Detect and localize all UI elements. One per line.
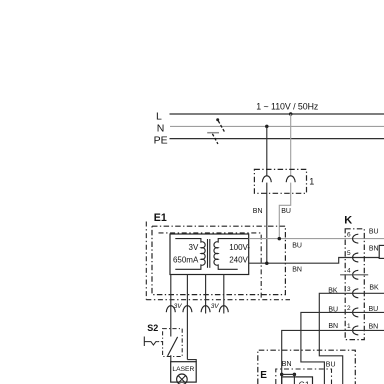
wire from N down to connector 1 bbox=[266, 126, 268, 176]
disconnect mark on line N (dot with dashed stroke) bbox=[216, 118, 224, 132]
svg-text:BU: BU bbox=[292, 243, 302, 250]
laser module box bbox=[171, 362, 197, 382]
connector K box bbox=[345, 229, 364, 340]
junction BU on 100V wire bbox=[278, 237, 282, 241]
transformer T1 body bbox=[170, 234, 249, 275]
K pin 6 contact bbox=[353, 234, 359, 243]
svg-text:100V-: 100V- bbox=[229, 243, 250, 252]
transformer secondary winding (right) bbox=[214, 239, 249, 270]
inner boundary line of E1 bbox=[159, 233, 262, 300]
svg-text:LASER: LASER bbox=[172, 366, 194, 373]
svg-text:BN: BN bbox=[292, 266, 302, 273]
K pin 4 contact bbox=[353, 270, 359, 279]
K pin 5 contact bbox=[353, 253, 359, 262]
secondary stub 1 bbox=[170, 275, 172, 337]
connector 1 box bbox=[254, 169, 306, 193]
wire K pin 3 to E box (BK) bbox=[319, 293, 384, 384]
K pin 2 contact bbox=[353, 308, 359, 317]
transformer primary winding (left) bbox=[175, 239, 205, 270]
svg-text:BU: BU bbox=[326, 362, 336, 369]
svg-text:3V: 3V bbox=[174, 303, 183, 310]
svg-text:BN: BN bbox=[253, 208, 263, 215]
svg-text:4: 4 bbox=[347, 267, 351, 274]
wire BU from connector 1 down to 100V node bbox=[279, 183, 290, 239]
svg-text:1 ~ 110V / 50Hz: 1 ~ 110V / 50Hz bbox=[256, 102, 318, 112]
power supply E1 enclosure bbox=[152, 226, 285, 294]
secondary contact 2 bbox=[183, 306, 192, 313]
K pin 3 contact bbox=[353, 289, 359, 298]
junction BN on 240V wire bbox=[265, 261, 269, 265]
junction on L bbox=[289, 112, 293, 116]
component box at right edge on pin 5 bbox=[379, 245, 384, 258]
connector 1 left contact bbox=[262, 176, 271, 182]
enclosure boundary left edge bbox=[145, 222, 147, 300]
svg-text:K: K bbox=[344, 215, 352, 227]
wire K pin 2 to E box (BU) bbox=[301, 312, 384, 384]
switch S2 blade bbox=[168, 337, 178, 356]
K pin 4 stub bbox=[340, 274, 368, 276]
svg-text:E: E bbox=[260, 370, 267, 381]
junction dot 2 in E bbox=[293, 373, 297, 377]
switch S2 actuator bbox=[144, 337, 157, 347]
wire 240V tap to K pin 5 (BN) bbox=[249, 258, 380, 264]
secondary contact 1 bbox=[166, 306, 175, 313]
wire L bbox=[170, 113, 384, 115]
connector 1 right contact bbox=[286, 176, 295, 182]
wire BN from connector 1 down to 240V node bbox=[266, 183, 268, 264]
secondary stub 2 bbox=[186, 275, 188, 360]
svg-text:E1: E1 bbox=[154, 212, 167, 224]
disconnect mark on line PE (bar with dashed stroke) bbox=[207, 133, 219, 144]
svg-text:BU: BU bbox=[281, 208, 291, 215]
svg-text:BN: BN bbox=[369, 323, 379, 330]
K pin 1 contact bbox=[353, 326, 359, 335]
svg-text:650mA: 650mA bbox=[173, 256, 199, 265]
svg-text:BK: BK bbox=[369, 285, 379, 292]
junction on N bbox=[265, 125, 269, 128]
switch S2 actuator link bbox=[157, 341, 162, 343]
wire secondary 2 to laser box bbox=[187, 360, 196, 362]
svg-text:1: 1 bbox=[347, 323, 351, 330]
inner dash-dot box in E bbox=[276, 369, 332, 384]
svg-text:3V: 3V bbox=[189, 243, 199, 252]
svg-text:BN: BN bbox=[282, 361, 292, 368]
enclosure boundary line below E1 bbox=[146, 299, 290, 301]
svg-text:PE: PE bbox=[154, 134, 168, 146]
svg-text:N: N bbox=[157, 123, 165, 135]
wire PE bbox=[170, 138, 384, 140]
svg-text:3V: 3V bbox=[211, 303, 220, 310]
secondary contact 3 bbox=[201, 306, 210, 313]
svg-text:G1: G1 bbox=[299, 381, 310, 384]
wire N bbox=[170, 125, 384, 127]
wire between junctions in E bbox=[282, 373, 295, 375]
svg-text:240V: 240V bbox=[229, 256, 248, 265]
switch S2 enclosure bbox=[163, 329, 183, 357]
svg-text:6: 6 bbox=[347, 231, 351, 238]
laser head unit E enclosure bbox=[258, 350, 356, 384]
svg-text:S2: S2 bbox=[147, 323, 158, 333]
secondary stub 3 bbox=[205, 275, 207, 314]
svg-text:1: 1 bbox=[309, 177, 314, 187]
wire K pin 1 to E box (BN) bbox=[282, 330, 384, 384]
wire 100V tap to K pin 6 (BU) bbox=[249, 238, 384, 240]
component G1 box bbox=[282, 377, 313, 384]
svg-text:L: L bbox=[156, 110, 162, 122]
svg-text:BN: BN bbox=[369, 246, 379, 253]
wire from L down to connector 1 bbox=[290, 114, 292, 176]
svg-text:BU: BU bbox=[369, 229, 379, 236]
lamp symbol of laser bbox=[177, 374, 188, 384]
svg-text:3: 3 bbox=[347, 286, 351, 293]
svg-text:BN: BN bbox=[328, 323, 338, 330]
svg-text:2: 2 bbox=[347, 305, 351, 312]
switch S2 lower wire bbox=[170, 355, 172, 362]
secondary stub 4 bbox=[223, 275, 225, 314]
transformer core bbox=[207, 239, 209, 268]
secondary contact 4 bbox=[219, 306, 228, 313]
junction dot 1 in E bbox=[280, 373, 284, 377]
wire junction 2 down bbox=[293, 374, 295, 384]
svg-text:5: 5 bbox=[347, 250, 351, 257]
